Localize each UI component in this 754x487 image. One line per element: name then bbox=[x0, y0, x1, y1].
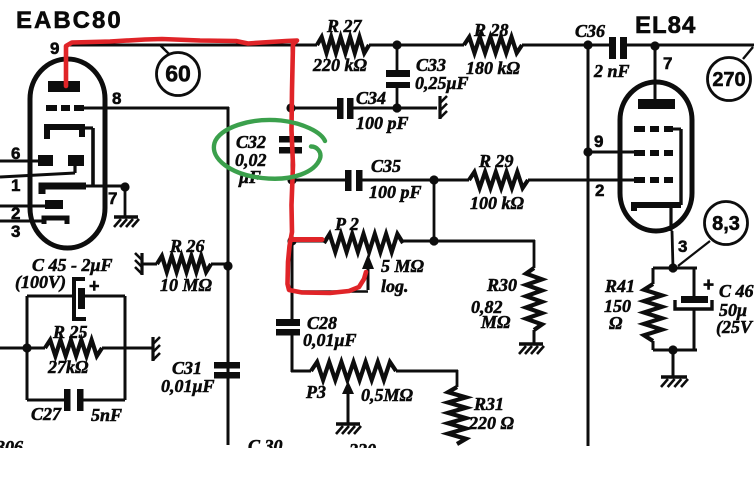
svg-text:P 2: P 2 bbox=[334, 214, 359, 234]
label C34 bbox=[356, 88, 386, 108]
node cathode junction bbox=[668, 263, 677, 272]
capacitor C32 bbox=[279, 136, 302, 154]
svg-text:MΩ: MΩ bbox=[480, 312, 511, 332]
svg-text:9: 9 bbox=[50, 39, 59, 58]
svg-text:(25V: (25V bbox=[716, 317, 754, 338]
label 220 kOhm bbox=[312, 55, 368, 75]
label 0,5MOhm bbox=[361, 385, 414, 405]
node EL84 pin 9 junction bbox=[583, 147, 592, 156]
svg-text:0,25μF: 0,25μF bbox=[415, 73, 469, 93]
label 2 nF bbox=[593, 61, 630, 81]
EABC80 diode anode (pin 2) bbox=[45, 200, 63, 209]
label 180 kOhm bbox=[466, 58, 521, 78]
svg-text:9: 9 bbox=[594, 132, 603, 151]
svg-text:EABC80: EABC80 bbox=[16, 7, 123, 34]
label P2 bbox=[334, 214, 359, 234]
ground below R30 bbox=[519, 344, 544, 354]
resistor R30 bbox=[526, 268, 542, 343]
callout circle 8,3 bbox=[678, 202, 748, 267]
node C36/EL84 pin7 junction bbox=[650, 41, 659, 50]
label 150 bbox=[604, 296, 631, 316]
label C36 bbox=[575, 21, 605, 41]
label R28 bbox=[473, 20, 509, 40]
capacitor C45 electrolytic bbox=[27, 279, 125, 319]
EABC80 diode anode (pin 6) bbox=[38, 155, 53, 166]
chassis ground right of C34 bbox=[440, 96, 447, 119]
capacitor C28 bbox=[276, 319, 300, 336]
svg-text:C32: C32 bbox=[236, 132, 266, 152]
svg-text:0,01μF: 0,01μF bbox=[303, 330, 357, 350]
svg-text:8: 8 bbox=[112, 89, 121, 108]
node C33/C34 junction bbox=[392, 103, 401, 112]
capacitor C35 bbox=[292, 170, 434, 191]
svg-text:+: + bbox=[703, 275, 714, 296]
EL84 grid 1 dashes bbox=[634, 177, 673, 183]
EL84 grid 3 dashes bbox=[634, 126, 681, 132]
pin label 1 bbox=[11, 176, 20, 195]
ground below pin 7 bbox=[114, 217, 139, 227]
pin label 9 bbox=[50, 39, 59, 58]
capacitor C31 bbox=[214, 362, 240, 379]
pin label 7 (EL84) bbox=[663, 54, 672, 73]
svg-text:10 MΩ: 10 MΩ bbox=[160, 275, 213, 295]
svg-text:2 nF: 2 nF bbox=[593, 61, 630, 81]
node C34 left junction bbox=[286, 103, 295, 112]
label uF (C32) bbox=[238, 167, 261, 187]
label 10 MOhm bbox=[160, 275, 213, 295]
svg-text:3: 3 bbox=[678, 237, 687, 256]
svg-text:0,5MΩ: 0,5MΩ bbox=[361, 385, 414, 405]
chassis ground right of R25 bbox=[153, 337, 160, 361]
svg-text:R31: R31 bbox=[473, 394, 504, 414]
partial label C30 (cut) bbox=[248, 436, 283, 456]
P3 wiper arrow bbox=[342, 381, 354, 423]
resistor R41 bbox=[644, 284, 662, 350]
wire pin 6 bbox=[0, 160, 39, 163]
label 0,82 bbox=[471, 297, 503, 317]
EL84 grid3-cathode link bbox=[679, 129, 682, 205]
svg-text:100 pF: 100 pF bbox=[369, 182, 422, 202]
EABC80 grid dashes (pin 8) bbox=[46, 105, 84, 111]
label 5 MOhm bbox=[381, 256, 425, 276]
ground below R41/C46 bbox=[661, 377, 688, 387]
EABC80 pin 9 lead bbox=[65, 45, 68, 84]
node P2 left junction bbox=[287, 236, 296, 245]
label 0,25uF bbox=[415, 73, 469, 93]
label R29 bbox=[478, 151, 514, 171]
label C35 bbox=[371, 156, 401, 176]
capacitor C33 bbox=[386, 45, 410, 108]
svg-text:100 pF: 100 pF bbox=[356, 113, 409, 133]
svg-text:7: 7 bbox=[108, 189, 117, 208]
callout circle 270 bbox=[708, 47, 754, 101]
label plus (C45) bbox=[89, 276, 100, 296]
wire P2 junction to R30 bbox=[434, 240, 535, 268]
svg-text:C33: C33 bbox=[416, 55, 446, 75]
svg-text:R41: R41 bbox=[604, 276, 635, 296]
label 100 kOhm (R29) bbox=[470, 193, 525, 213]
label Ohm (R41) bbox=[609, 313, 623, 333]
svg-text:220 Ω: 220 Ω bbox=[468, 413, 515, 433]
wire network right rail bbox=[124, 296, 127, 400]
node R28/C36 junction bbox=[583, 40, 592, 49]
label 50u bbox=[719, 300, 747, 320]
svg-text:C31: C31 bbox=[172, 358, 202, 378]
svg-text:C34: C34 bbox=[356, 88, 386, 108]
svg-text:C27: C27 bbox=[31, 404, 62, 424]
label plus (C46) bbox=[703, 275, 714, 296]
EABC80 internal anode link bbox=[91, 128, 95, 186]
label MOhm (R30) bbox=[480, 312, 511, 332]
svg-text:5nF: 5nF bbox=[91, 405, 122, 425]
label 5nF bbox=[91, 405, 122, 425]
pin label 2 (EL84) bbox=[595, 181, 604, 200]
svg-text:3: 3 bbox=[11, 222, 20, 241]
label 220 Ohm bbox=[468, 413, 515, 433]
label log. bbox=[381, 276, 409, 296]
svg-text:7: 7 bbox=[663, 54, 672, 73]
ground below P3 bbox=[336, 424, 361, 434]
EABC80 anode plate (pin 9) bbox=[48, 81, 80, 92]
tube label EABC80 bbox=[16, 7, 123, 34]
wire junction to chassis bbox=[397, 107, 437, 110]
svg-text:(100V): (100V) bbox=[15, 272, 66, 293]
wire anode bus down from top bbox=[291, 45, 294, 137]
resistor R31 bbox=[448, 370, 466, 444]
wire network left rail bbox=[0, 296, 45, 400]
label 0,02 bbox=[235, 150, 267, 170]
svg-text:180 kΩ: 180 kΩ bbox=[466, 58, 521, 78]
label R30 bbox=[486, 275, 517, 295]
wire pin 7 bbox=[86, 185, 126, 188]
wire pin 8 to grid bus bbox=[82, 107, 229, 445]
svg-text:R 26: R 26 bbox=[169, 236, 205, 256]
EL84 anode plate bbox=[638, 99, 675, 109]
label R31 bbox=[473, 394, 504, 414]
svg-text:R30: R30 bbox=[486, 275, 517, 295]
svg-text:EL84: EL84 bbox=[635, 12, 696, 39]
node C35 left junction bbox=[287, 175, 296, 184]
white crop band at bottom bbox=[0, 448, 754, 487]
label C32 bbox=[236, 132, 266, 152]
wire cathode network bottom bbox=[653, 349, 697, 352]
svg-text:R 25: R 25 bbox=[52, 322, 88, 342]
label 0,01uF (C31) bbox=[161, 376, 215, 396]
wire C36 junction down to pin 9 and below bbox=[587, 45, 590, 446]
svg-text:C 46: C 46 bbox=[719, 281, 754, 301]
pin label 3 (EL84) bbox=[678, 237, 687, 256]
potentiometer P3 bbox=[311, 362, 458, 380]
EABC80 cathode bracket bbox=[42, 186, 86, 194]
wire pin 1 bbox=[0, 173, 75, 177]
pin label 6 bbox=[11, 144, 20, 163]
label R26 bbox=[169, 236, 205, 256]
green annotation circle around C32 bbox=[214, 120, 325, 179]
tube EL84 envelope bbox=[620, 82, 692, 231]
label (100V) bbox=[15, 272, 66, 293]
wire top B+ bus bbox=[66, 44, 754, 47]
EABC80 cathode (pin 3) bbox=[44, 218, 67, 224]
resistor R25 bbox=[45, 340, 152, 356]
potentiometer P2 bbox=[292, 234, 434, 252]
svg-text:R 29: R 29 bbox=[478, 151, 514, 171]
resistor R26 bbox=[142, 256, 228, 272]
node R26/grid bus junction bbox=[223, 261, 232, 270]
resistor R27 bbox=[317, 37, 369, 53]
svg-text:C35: C35 bbox=[371, 156, 401, 176]
tube EABC80 envelope bbox=[30, 59, 105, 248]
capacitor C27 bbox=[27, 389, 125, 411]
label (25V) bbox=[716, 317, 754, 338]
EABC80 diode anode (pin 1) bbox=[68, 155, 84, 173]
wire C28 to P3 bbox=[291, 335, 311, 372]
svg-text:2: 2 bbox=[595, 181, 604, 200]
resistor R29 bbox=[434, 172, 634, 188]
label 0,01uF (C28) bbox=[303, 330, 357, 350]
label R25 bbox=[52, 322, 88, 342]
EABC80 triode anode bracket bbox=[47, 127, 93, 139]
pin label 9 (EL84) bbox=[594, 132, 603, 151]
svg-text:R 27: R 27 bbox=[326, 16, 363, 36]
wire cathode network top bbox=[653, 268, 697, 297]
capacitor C46 electrolytic bbox=[675, 296, 712, 350]
wire P2 wiper return (under red) bbox=[292, 290, 368, 292]
svg-text:+: + bbox=[89, 276, 100, 296]
label 100 pF (C35) bbox=[369, 182, 422, 202]
callout circle 60 bbox=[157, 45, 200, 96]
svg-text:5 MΩ: 5 MΩ bbox=[381, 256, 425, 276]
red annotation trace bbox=[66, 39, 366, 293]
pin label 7 bbox=[108, 189, 117, 208]
pin label 2 bbox=[11, 204, 20, 223]
EL84 grid 2 dashes bbox=[634, 150, 673, 156]
label C45-2uF bbox=[32, 255, 113, 275]
pin label 8 bbox=[112, 89, 121, 108]
capacitor C36 bbox=[609, 37, 627, 59]
label C28 bbox=[307, 313, 337, 333]
svg-text:100 kΩ: 100 kΩ bbox=[470, 193, 525, 213]
EL84 cathode lead bbox=[671, 207, 673, 268]
svg-text:270: 270 bbox=[712, 69, 745, 91]
label R27 bbox=[326, 16, 363, 36]
label C33 bbox=[416, 55, 446, 75]
EL84 cathode bracket bbox=[634, 205, 681, 211]
label C27 bbox=[31, 404, 62, 424]
node network bottom junction bbox=[668, 345, 677, 376]
label P3 bbox=[305, 382, 326, 402]
label 27kOhm bbox=[47, 357, 89, 377]
label C31 bbox=[172, 358, 202, 378]
label C46 bbox=[719, 281, 754, 301]
wire pin 9 to grid2 bbox=[588, 151, 634, 154]
svg-text:60: 60 bbox=[165, 61, 191, 87]
node R27/C33 junction bbox=[392, 40, 401, 49]
svg-text:P3: P3 bbox=[305, 382, 326, 402]
EL84 pin 7 lead bbox=[654, 46, 657, 100]
pin label 3 bbox=[11, 222, 20, 241]
label R41 bbox=[604, 276, 635, 296]
node pin7 corner bbox=[120, 182, 129, 216]
capacitor C34 bbox=[291, 98, 397, 119]
svg-text:220 kΩ: 220 kΩ bbox=[312, 55, 368, 75]
tube label EL84 bbox=[635, 12, 696, 39]
svg-text:8,3: 8,3 bbox=[712, 213, 740, 235]
svg-text:R 28: R 28 bbox=[473, 20, 509, 40]
P2 wiper arrow bbox=[362, 254, 374, 290]
svg-text:1: 1 bbox=[11, 176, 20, 195]
wire C32 down to P2/C28 bbox=[291, 153, 294, 321]
chassis ground left of R26 bbox=[135, 253, 142, 275]
partial label below P3 (cut) bbox=[348, 440, 376, 460]
node C35/R29 junction bbox=[429, 175, 438, 241]
resistor R28 bbox=[464, 37, 522, 53]
svg-text:C36: C36 bbox=[575, 21, 605, 41]
svg-text:27kΩ: 27kΩ bbox=[47, 357, 89, 377]
label 100 pF (C34) bbox=[356, 113, 409, 133]
node P2/R30 junction bbox=[429, 236, 438, 245]
node R25 left junction bbox=[22, 343, 31, 352]
svg-text:0,01μF: 0,01μF bbox=[161, 376, 215, 396]
svg-text:Ω: Ω bbox=[609, 313, 623, 333]
partial label bottom-left (cut) bbox=[0, 437, 23, 457]
wire pin 2 bbox=[0, 205, 45, 208]
svg-text:log.: log. bbox=[381, 276, 409, 296]
wire pin 3 bbox=[0, 220, 44, 223]
